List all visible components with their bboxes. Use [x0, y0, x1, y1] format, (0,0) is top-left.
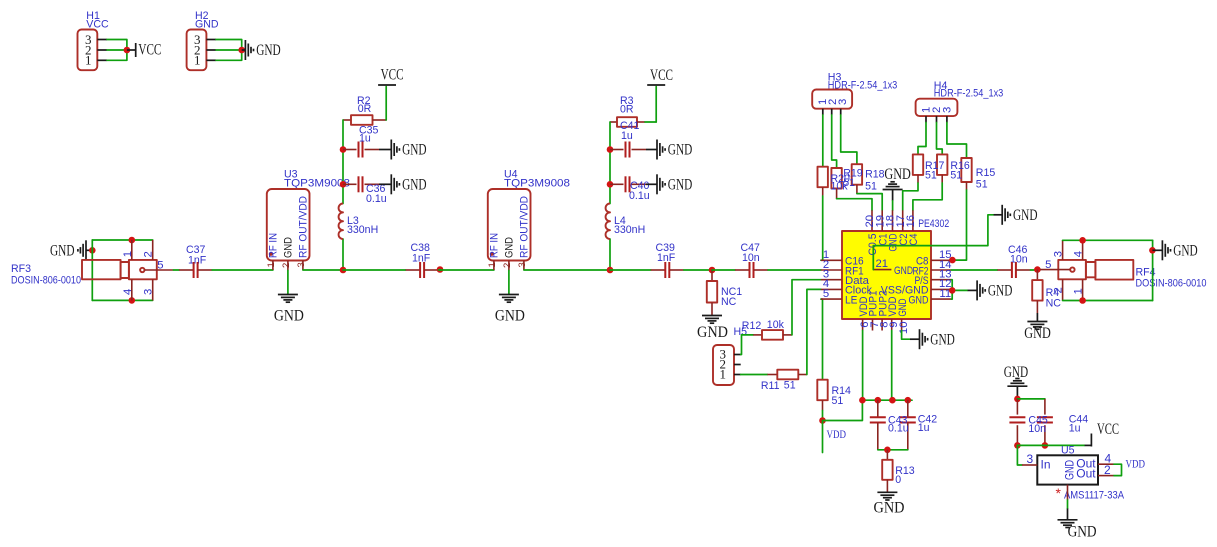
U1 pad pin 21 GND	[873, 258, 913, 277]
ground GND (U4)	[495, 295, 525, 325]
power VCC (H1)	[127, 42, 161, 59]
svg-text:0.1u: 0.1u	[629, 190, 650, 202]
junction U1.15	[949, 257, 956, 264]
wire GND stub RF3	[86, 249, 92, 251]
svg-text:51: 51	[865, 181, 877, 193]
power VCC (U5 in)	[1085, 421, 1119, 447]
resistor R11 51	[761, 370, 807, 392]
svg-text:1: 1	[122, 251, 134, 257]
svg-text:DOSIN-806-0010: DOSIN-806-0010	[11, 275, 81, 287]
ground GND (U1.10)	[910, 329, 955, 349]
svg-text:2: 2	[1053, 287, 1065, 293]
svg-text:TQP3M9008: TQP3M9008	[504, 178, 570, 190]
junction bus pin9	[889, 397, 896, 404]
junction C38 right	[437, 266, 444, 273]
label R15 51	[976, 167, 996, 191]
U1 top pins 20-16	[864, 210, 920, 255]
ground GND (C45 top)	[1004, 364, 1028, 399]
wire C37 to U3.1	[212, 269, 273, 271]
svg-text:GND: GND	[504, 237, 516, 258]
svg-text:5: 5	[823, 288, 829, 300]
junction C45 top	[1014, 396, 1021, 403]
wire U1.13-12-11 tie	[951, 280, 967, 299]
connector H5	[713, 326, 747, 385]
svg-text:VDD: VDD	[1126, 457, 1146, 471]
resistor R18 51	[852, 164, 862, 193]
wire R11 to Clock pin	[807, 289, 821, 374]
wire U1.10 to ground	[902, 331, 910, 340]
wire R15 to U1.15 C8	[952, 190, 966, 260]
inductor L3 330nH	[339, 204, 379, 240]
capacitor C47 10n	[735, 242, 768, 278]
svg-text:GND: GND	[195, 18, 219, 30]
wire C45 rail to U5.3	[1017, 445, 1022, 465]
svg-text:R18: R18	[865, 169, 885, 181]
svg-text:RF IN: RF IN	[268, 233, 280, 258]
junction bus pin6	[859, 397, 866, 404]
svg-text:0.1u: 0.1u	[888, 423, 909, 435]
svg-text:3: 3	[1027, 452, 1034, 466]
capacitor C43 0.1u	[870, 400, 909, 450]
wire U1.9 VDD to bus	[891, 331, 893, 401]
svg-text:0R: 0R	[620, 104, 634, 116]
wire H1 pins to VCC	[107, 40, 127, 61]
wire H3.1 to R20	[822, 115, 824, 167]
wire U1.6 VDD to bus	[862, 331, 864, 401]
wire C47 to U1.2 RF1	[768, 269, 821, 271]
capacitor C46 10n	[997, 244, 1030, 278]
wire U1.14 RF2 to C46	[951, 269, 997, 271]
junction RF4 node	[1034, 266, 1041, 273]
svg-text:2: 2	[143, 251, 155, 257]
junction H2	[238, 47, 245, 54]
wire H3.3 to R18	[841, 115, 857, 164]
svg-text:3: 3	[837, 99, 849, 105]
wire R17 to U1.17	[903, 183, 918, 210]
svg-text:GND: GND	[930, 331, 955, 348]
wire NC1 node to C47	[712, 269, 735, 271]
svg-text:VCC: VCC	[86, 18, 109, 30]
wire L4 node to C39	[610, 269, 651, 271]
svg-text:GND: GND	[1068, 524, 1097, 541]
resistor R4 NC	[1032, 270, 1061, 321]
svg-text:GND: GND	[50, 243, 75, 260]
junction RF3 pin4	[129, 297, 136, 304]
ground GND (C41)	[646, 140, 692, 160]
svg-text:GND: GND	[668, 177, 693, 194]
junction C40 tap	[607, 181, 614, 188]
wire VDD bias bus U4	[609, 122, 611, 270]
ground GND (NC1)	[697, 316, 728, 342]
ground GND (C36)	[379, 174, 427, 194]
ground GND (C35)	[379, 140, 427, 160]
svg-text:GND: GND	[897, 299, 909, 317]
wire RF3.5 to C37	[173, 269, 179, 271]
wire H5.1 to R11	[741, 374, 768, 376]
svg-text:0.1u: 0.1u	[366, 193, 387, 205]
regulator U5 AMS1117-33A	[1022, 445, 1125, 502]
svg-text:DOSIN-806-0010: DOSIN-806-0010	[1136, 278, 1207, 290]
svg-text:VDD: VDD	[827, 427, 847, 441]
svg-text:1nF: 1nF	[412, 253, 431, 265]
svg-text:AMS1117-33A: AMS1117-33A	[1064, 490, 1125, 502]
svg-text:VCC: VCC	[1097, 421, 1119, 438]
svg-text:2: 2	[502, 263, 513, 268]
svg-text:3: 3	[517, 262, 528, 267]
wire H5.3 to R12	[741, 335, 754, 355]
junction U1.12	[949, 287, 956, 294]
connector H1	[78, 10, 110, 70]
svg-text:C4: C4	[908, 234, 920, 246]
junction RF3 pin1	[129, 237, 136, 244]
svg-text:RF3: RF3	[11, 263, 31, 275]
wire VDD bus	[862, 399, 912, 401]
ground GND (U5)	[1058, 520, 1097, 541]
svg-text:GND: GND	[256, 42, 281, 59]
svg-text:GND: GND	[495, 308, 525, 325]
resistor R3 0R	[610, 95, 645, 127]
wire U3.2 to ground	[287, 271, 289, 295]
svg-text:5: 5	[1045, 259, 1051, 271]
svg-text:4: 4	[122, 289, 134, 295]
svg-text:GND: GND	[1173, 243, 1198, 260]
resistor R19 51	[831, 168, 841, 199]
junction C35 tap	[340, 146, 347, 153]
connector H2	[187, 10, 219, 70]
ground GND (U3)	[274, 295, 304, 325]
svg-text:51: 51	[784, 380, 796, 392]
label R18 51	[865, 169, 885, 193]
wire R12 to Data pin	[792, 280, 821, 335]
wire U5 out loop	[1114, 464, 1122, 475]
svg-text:330nH: 330nH	[614, 224, 645, 236]
wire U5 gnd	[1067, 500, 1069, 520]
ground GND (RF3 shield)	[50, 240, 86, 260]
wire H4.3 to R15	[947, 123, 967, 159]
junction bus C42	[905, 397, 912, 404]
ground GND (C40)	[646, 174, 692, 194]
svg-text:*: *	[1056, 485, 1062, 501]
wire C43-C42 bottoms	[878, 449, 908, 451]
resistor R2 0R	[343, 95, 386, 125]
label R16 51	[950, 160, 970, 182]
svg-text:51: 51	[843, 177, 855, 189]
svg-text:GND: GND	[884, 166, 911, 183]
wire U1.21 to ground	[873, 215, 993, 270]
power VCC (U3)	[378, 67, 404, 86]
ground GND (H2)	[242, 40, 281, 60]
connector H4 HDR-F-2.54_1x3	[916, 80, 1004, 123]
capacitor C41 1u	[610, 120, 646, 158]
resistor R20 10k	[818, 167, 828, 196]
svg-text:3: 3	[941, 107, 953, 113]
svg-text:4: 4	[1073, 251, 1085, 257]
svg-text:5: 5	[157, 260, 163, 272]
svg-text:GND: GND	[874, 500, 905, 517]
svg-text:Out: Out	[1076, 467, 1096, 481]
resistor R17 51	[913, 154, 923, 183]
svg-text:51: 51	[832, 395, 844, 407]
svg-text:1nF: 1nF	[657, 252, 676, 264]
connector H3 HDR-F-2.54_1x3	[812, 72, 897, 116]
wire GND to U1.18	[892, 201, 894, 211]
wire R3 to VCC	[645, 87, 656, 123]
svg-text:VCC: VCC	[381, 67, 404, 84]
svg-text:NC: NC	[1046, 298, 1062, 310]
svg-text:3: 3	[296, 262, 307, 267]
resistor R16 51	[937, 154, 947, 183]
junction RF4 pin4 top	[1079, 237, 1086, 244]
capacitor C35 1u	[343, 125, 379, 158]
svg-text:1: 1	[266, 262, 277, 267]
wire H4.2 to R16	[937, 123, 943, 155]
label R17 51	[925, 160, 945, 182]
wire RF3 shield loop	[92, 240, 152, 300]
svg-text:10n: 10n	[1028, 423, 1046, 435]
svg-text:GND: GND	[1013, 207, 1038, 224]
svg-text:21: 21	[876, 258, 889, 270]
junction L3 main line	[340, 267, 347, 274]
svg-text:0R: 0R	[358, 103, 372, 115]
svg-text:R15: R15	[976, 167, 996, 179]
resistor R14 51	[817, 380, 851, 411]
wire R14 to VDD node	[822, 411, 824, 421]
junction L4 main line	[607, 267, 614, 274]
wire C46 to RF4 node	[1030, 269, 1037, 271]
svg-text:1u: 1u	[621, 130, 633, 142]
wire R18 to U1.19	[857, 194, 882, 211]
wire R2 to VCC	[385, 87, 387, 121]
junction bus C43	[875, 397, 882, 404]
svg-text:VCC: VCC	[138, 42, 161, 59]
svg-text:GND: GND	[1024, 325, 1051, 342]
inductor L4 330nH	[606, 204, 646, 240]
svg-text:In: In	[1041, 458, 1051, 472]
capacitor C39 1nF	[651, 242, 684, 278]
wire R19 to U1.20	[837, 199, 872, 211]
wire C39 to NC1 node	[684, 269, 712, 271]
op-amp U3 TQP3M9008	[266, 169, 350, 271]
svg-text:3: 3	[1053, 251, 1065, 257]
connector RF3	[11, 240, 173, 300]
wire VDD node to bus	[823, 400, 863, 420]
svg-text:GND: GND	[402, 177, 427, 194]
svg-text:1: 1	[487, 262, 498, 267]
svg-text:2: 2	[281, 263, 292, 268]
svg-text:2: 2	[1104, 463, 1111, 477]
svg-text:10: 10	[898, 322, 910, 335]
svg-text:RF OUT/VDD: RF OUT/VDD	[519, 196, 531, 258]
svg-text:RF OUT/VDD: RF OUT/VDD	[298, 196, 310, 258]
svg-text:GND: GND	[988, 283, 1013, 300]
wire U4.2 to ground	[508, 271, 510, 295]
svg-text:330nH: 330nH	[347, 224, 378, 236]
U1 left pins 1-5	[821, 249, 872, 306]
label R19 51	[843, 168, 863, 189]
wire R16 to U1.16	[913, 183, 942, 210]
wire H2 pins to GND	[216, 40, 242, 61]
ground GND (U1.12)	[968, 280, 1013, 300]
svg-text:LE: LE	[845, 294, 858, 306]
svg-text:GND: GND	[668, 142, 693, 159]
junction NC1 tap	[709, 267, 716, 274]
svg-text:1u: 1u	[359, 133, 371, 145]
wire VCC input rail	[1017, 444, 1084, 446]
capacitor C38 1nF	[406, 242, 439, 278]
svg-text:1: 1	[85, 53, 92, 68]
svg-text:GND: GND	[697, 324, 728, 341]
wire LE pin to R14	[821, 299, 823, 380]
wire RF4 shield loop	[1063, 240, 1153, 300]
svg-text:51: 51	[976, 179, 988, 191]
wire L3 node to C38	[343, 269, 406, 271]
svg-text:3: 3	[143, 289, 155, 295]
junction RF4 pin1 bottom	[1079, 297, 1086, 304]
svg-text:RF IN: RF IN	[489, 233, 501, 258]
wire H4.1 to R17	[918, 123, 926, 155]
capacitor C42 1u	[900, 400, 937, 450]
U1 bottom pins 6-10	[858, 291, 910, 335]
capacitor C44 1u	[1037, 399, 1088, 446]
power VDD (R14)	[823, 421, 847, 453]
ground GND (RF4)	[1152, 240, 1197, 260]
connector RF4	[1040, 240, 1207, 300]
svg-text:51: 51	[950, 170, 962, 182]
wire R20 to U1.1 C16	[821, 196, 823, 260]
resistor NC1 NC	[707, 270, 743, 315]
junction R13 top	[884, 447, 891, 454]
junction C36 tap	[340, 181, 347, 188]
junction R14 bottom	[819, 417, 826, 424]
op-amp U4 TQP3M9008	[487, 169, 570, 271]
svg-text:R11: R11	[761, 380, 780, 392]
junction C44 bottom	[1042, 442, 1049, 449]
ground GND (U1.21)	[994, 205, 1038, 225]
wire C45-C44 tops	[1017, 398, 1045, 400]
svg-text:PE4302: PE4302	[918, 218, 949, 230]
attenuator U1 PE4302	[842, 218, 949, 319]
wire VDD bias bus U3	[342, 120, 344, 270]
wire U3.3 to L3 node	[303, 269, 343, 271]
junction H1	[124, 47, 131, 54]
svg-text:GND: GND	[402, 142, 427, 159]
label R20 10k	[831, 173, 851, 193]
resistor R15 51	[961, 158, 971, 190]
svg-text:0: 0	[895, 474, 901, 486]
svg-text:10n: 10n	[742, 252, 760, 264]
svg-text:1: 1	[720, 367, 727, 382]
svg-text:NC: NC	[721, 296, 737, 308]
junction C41 tap	[607, 146, 614, 153]
svg-text:1u: 1u	[918, 422, 930, 434]
svg-text:GND: GND	[274, 308, 304, 325]
svg-text:1: 1	[1073, 288, 1085, 294]
svg-text:1u: 1u	[1069, 423, 1081, 435]
wire U4.3 to L4 node	[524, 269, 610, 271]
junction C45 bottom	[1014, 442, 1021, 449]
svg-text:GND: GND	[909, 294, 929, 306]
capacitor C36 0.1u	[343, 176, 387, 205]
svg-text:GND: GND	[1063, 460, 1077, 480]
ground GND (above U1)	[883, 166, 911, 201]
junction RF4 shield gnd	[1149, 247, 1156, 254]
resistor R13 0	[882, 450, 915, 492]
svg-text:1: 1	[194, 53, 201, 68]
resistor R12 10k	[742, 319, 792, 340]
svg-text:HDR-F-2.54_1x3: HDR-F-2.54_1x3	[934, 88, 1004, 100]
power VCC (U4)	[647, 67, 673, 85]
svg-text:GND: GND	[894, 265, 913, 277]
U1 right pins 15-11	[881, 249, 952, 306]
svg-text:16: 16	[905, 215, 917, 228]
svg-text:R12: R12	[742, 320, 762, 332]
junction RF3 shield	[89, 247, 96, 254]
capacitor C45 10n	[1009, 399, 1048, 446]
wire C38 to U4.1	[439, 269, 441, 272]
capacitor C40 0.1u	[610, 176, 650, 202]
capacitor C37	[179, 244, 212, 278]
svg-text:VCC: VCC	[650, 67, 673, 84]
svg-text:51: 51	[925, 170, 937, 182]
svg-text:GND: GND	[283, 237, 295, 258]
wire H3.2 to R19	[832, 115, 837, 168]
ground GND (R13)	[874, 492, 905, 516]
ground GND (R4)	[1024, 322, 1051, 343]
